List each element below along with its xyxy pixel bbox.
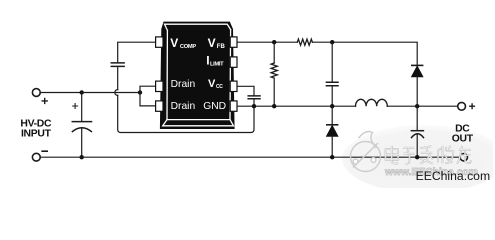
pin VFB (right 1)	[230, 37, 237, 47]
svg-text:CC: CC	[216, 84, 223, 90]
op-amp U1 : switcher IC body	[160, 22, 235, 129]
svg-text:LIMIT: LIMIT	[210, 61, 224, 67]
svg-text:V: V	[208, 78, 216, 90]
svg-text:FB: FB	[217, 44, 226, 50]
terminal: HV-DC input -	[32, 151, 47, 161]
junction: output cap / FB diode on mid rail	[415, 104, 419, 108]
svg-text:COMP: COMP	[180, 44, 197, 50]
junction: output cap on - rail	[415, 155, 419, 159]
pin VCOMP (left 1)	[156, 37, 163, 47]
capacitor: VCC bypass	[248, 96, 260, 106]
junction: freewheel diode on mid rail	[330, 104, 334, 108]
capacitor: feedback	[326, 42, 338, 106]
wire: VFB feedback top run	[238, 42, 417, 65]
diode: feedback sense zener	[412, 65, 423, 106]
wire: bracket to both Drain pins	[140, 86, 156, 106]
pin ILIMIT (right 2)	[230, 57, 237, 67]
svg-text:Drain: Drain	[171, 79, 196, 90]
resistor: feedback upper (horizontal zigzag)	[297, 39, 312, 45]
wire: + input rail	[40, 92, 140, 94]
wire: VCOMP pin to compensation cap	[118, 42, 156, 62]
resistor: feedback lower (vertical zigzag)	[271, 42, 277, 106]
label VFB	[208, 36, 226, 50]
junction: FB lower resistor on mid rail	[272, 104, 276, 108]
inductor: output choke	[356, 99, 388, 106]
pin Drain upper (left 2)	[156, 81, 163, 91]
wire: bottom - rail	[40, 156, 460, 158]
wire: GND / output mid rail	[238, 105, 458, 107]
svg-text:V: V	[208, 36, 216, 50]
terminal: DC out -	[460, 154, 467, 161]
junction: input cap on - rail	[80, 155, 84, 159]
pin VCC (right 3)	[230, 81, 237, 91]
junction: FB cap on top wire	[330, 40, 334, 44]
wire: comp cap down, hop over + rail, loop under IC to GND node	[115, 67, 254, 132]
svg-text:Drain: Drain	[171, 101, 196, 112]
junction: VCC cap and GND loop on mid rail	[252, 104, 256, 108]
watermark: EEChina logo	[351, 132, 381, 172]
label VCOMP	[170, 36, 196, 50]
svg-text:EEChina.com: EEChina.com	[416, 169, 491, 183]
label ILIMIT	[206, 53, 224, 67]
label VCC	[208, 78, 223, 90]
terminal: DC out +	[458, 102, 475, 110]
junction: drain bracket feed on + rail	[138, 90, 142, 94]
junction: freewheel diode on - rail	[330, 155, 334, 159]
svg-text:OUT: OUT	[452, 133, 474, 144]
svg-text:GND: GND	[203, 101, 226, 112]
svg-text:INPUT: INPUT	[21, 129, 52, 140]
capacitor: output electrolytic	[411, 106, 423, 157]
capacitor: input bulk electrolytic	[72, 93, 91, 158]
terminal: HV-DC input +	[32, 89, 47, 104]
junction: input cap on + rail	[80, 90, 84, 94]
junction: lower FB resistor on top wire	[272, 40, 276, 44]
wire: VCC pin to bypass cap	[238, 86, 254, 95]
label DC OUT	[452, 123, 474, 144]
pin GND (right 4)	[230, 101, 237, 111]
capacitor: VCOMP compensation	[111, 63, 124, 67]
label HV-DC INPUT	[20, 118, 52, 139]
pin Drain lower (left 3)	[156, 101, 163, 111]
svg-text:V: V	[170, 36, 178, 50]
diode: freewheel (mid rail to - rail)	[327, 106, 338, 157]
